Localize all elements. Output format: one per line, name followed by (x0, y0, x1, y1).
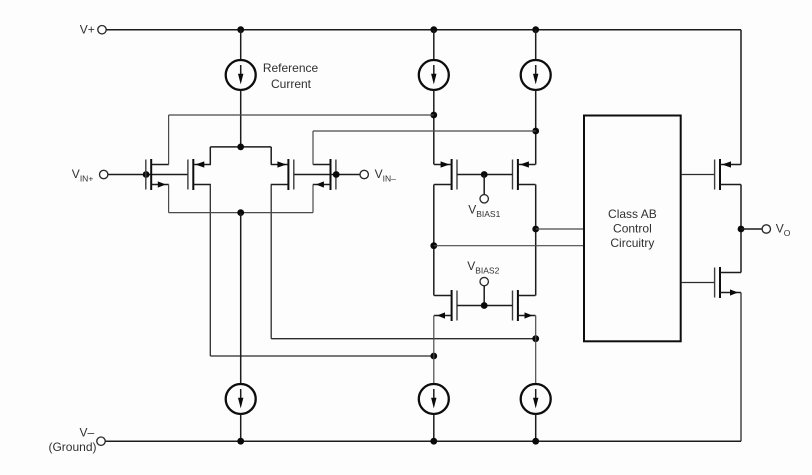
transistor M9 (PMOS output, top) (715, 159, 741, 190)
label Reference Current (263, 61, 319, 91)
svg-text:Reference: Reference (263, 61, 319, 75)
junction at right bottom cascode source column (532, 335, 539, 342)
wire Class AB box to M9 gate (681, 174, 715, 176)
wire M10 source drop to V- rail (740, 293, 742, 442)
junction on V- rail at right sink (532, 438, 539, 445)
transistor M6 (PMOS cascode, top right) (513, 159, 536, 190)
svg-text:V+: V+ (80, 23, 95, 37)
terminal V_BIAS1 (468, 175, 500, 219)
junction node at right folded-cascode top (532, 128, 539, 135)
junction at M4 gate (333, 171, 340, 178)
junction N-pair tail (237, 209, 244, 216)
transistor M10 (NMOS output, bottom) (715, 267, 741, 298)
wire V+ rail (106, 30, 741, 165)
wire M2 source riser to P-pair rail (209, 147, 211, 165)
wire V_IN+ to input gates (108, 174, 188, 176)
wire M3 source riser to P-pair rail (270, 147, 272, 165)
junction on V+ rail at right cascode column (532, 26, 539, 33)
terminal V+ (80, 23, 106, 37)
junction V_BIAS1 gates (481, 171, 488, 178)
terminal V_BIAS2 (467, 259, 499, 305)
junction on V- rail at left sink (430, 438, 437, 445)
terminal V_IN- (360, 167, 396, 184)
junction left cascode output node (430, 242, 437, 249)
svg-text:Control: Control (613, 222, 652, 236)
wire V- rail (105, 440, 741, 442)
wire left cascode node to Class AB box (434, 245, 584, 247)
wire P-pair common-source rail (210, 146, 271, 148)
svg-text:Current: Current (271, 77, 312, 91)
current source I5 (bottom, left cascode sink) (419, 384, 449, 441)
wire V_BIAS2 gate rail (457, 305, 513, 307)
wire N-pair common tail rail (169, 212, 313, 214)
wire M6 drain drop to M8 drain (535, 185, 537, 296)
junction on V- rail at tail sink (237, 438, 244, 445)
wire M4 source to tail rail (312, 185, 314, 213)
junction output node (738, 226, 745, 233)
svg-text:Circuitry: Circuitry (610, 236, 654, 250)
terminal V_O (741, 222, 791, 239)
transistor M7 (NMOS cascode, bottom left) (434, 290, 457, 321)
current source I4 (bottom, tail sink) (226, 384, 256, 441)
wire M9 drain drop to output node (740, 185, 742, 273)
block U1 Class AB Control Circuitry (584, 116, 681, 342)
transistor M3 (PMOS, inner right input) (271, 159, 294, 190)
transistor M1 (NMOS, outer left input) (146, 159, 169, 190)
wire M1 drain riser to left cascode node (169, 115, 434, 165)
transistor M4 (NMOS, outer right input) (313, 159, 336, 190)
junction P-pair tail (237, 144, 244, 151)
junction on V+ rail at left cascode column (430, 26, 437, 33)
wire Class AB box to M10 gate (681, 282, 715, 284)
transistor M5 (PMOS cascode, top left) (434, 159, 457, 190)
svg-text:(Ground): (Ground) (48, 440, 96, 454)
transistor M2 (PMOS, inner left input) (188, 159, 211, 190)
svg-text:Class AB: Class AB (608, 207, 657, 221)
wire V_BIAS1 gate rail (457, 174, 513, 176)
transistor M8 (NMOS cascode, bottom right) (513, 290, 536, 321)
wire right cascode node to Class AB box (536, 228, 584, 230)
terminal V_IN+ (72, 167, 108, 184)
svg-text:V–: V– (80, 425, 95, 439)
current source I1 (reference current) (226, 30, 256, 147)
wire M1 source to tail rail (168, 185, 170, 213)
wire M2 drain drop and run to left bottom cascode source (210, 185, 433, 357)
junction V_BIAS2 gates (481, 302, 488, 309)
wire tail to bottom reference sink (240, 213, 242, 384)
wire M7 source drop to bottom current source (433, 316, 435, 385)
wire M4 drain riser to right cascode node (313, 131, 536, 165)
wire M8 source drop to bottom current source (535, 316, 537, 385)
junction at M1 gate (143, 171, 150, 178)
current source I6 (bottom, right cascode sink) (521, 384, 551, 441)
terminal V- (Ground) (48, 425, 105, 453)
wire M5 drain drop to M7 drain (433, 185, 435, 296)
wire M3 drain drop and run to right bottom cascode source (271, 185, 536, 339)
junction right cascode output node (532, 226, 539, 233)
wire V_IN- to input gates (294, 174, 360, 176)
junction at left bottom cascode source column (430, 353, 437, 360)
junction node at left folded-cascode top (430, 112, 437, 119)
current source I3 (top, right cascode leg) (521, 30, 551, 165)
junction on V+ rail at ref current (237, 26, 244, 33)
current source I2 (top, left cascode leg) (419, 30, 449, 165)
